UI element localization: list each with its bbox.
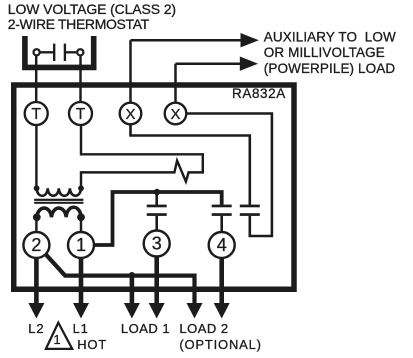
transformer secondary coil <box>37 207 81 217</box>
svg-text:AUXILIARY TO LOW: AUXILIARY TO LOW <box>264 30 396 45</box>
svg-text:1: 1 <box>76 235 86 255</box>
svg-text:1: 1 <box>53 332 60 347</box>
terminal X2 <box>165 103 187 125</box>
svg-text:2: 2 <box>31 235 41 255</box>
wire terminal 1 to bus and capacitor C2 <box>94 192 222 245</box>
arrowhead LOAD1 right <box>149 303 165 319</box>
capacitor C3 <box>240 205 260 216</box>
svg-text:LOAD 2: LOAD 2 <box>179 321 228 336</box>
svg-text:(POWERPILE) LOAD: (POWERPILE) LOAD <box>264 61 396 76</box>
terminal 1 <box>68 232 94 258</box>
wire secondary right to terminal 1 <box>80 217 82 233</box>
arrowhead L2 <box>28 303 44 319</box>
wire terminal 3 to LOAD1 right arrow <box>154 257 159 305</box>
transformer primary coil <box>37 188 81 196</box>
wire X2 right and down to capacitor C3 bottom <box>186 114 272 237</box>
svg-text:L1: L1 <box>73 321 89 336</box>
wire terminal 2 diagonal to load bus <box>46 254 195 304</box>
transformer primary junction dot left <box>34 185 40 191</box>
warning triangle 1 <box>46 323 72 349</box>
svg-text:T: T <box>76 106 86 123</box>
transformer secondary junction dot left <box>33 213 41 221</box>
arrowhead LOAD2 right <box>214 303 230 319</box>
svg-text:LOAD 1: LOAD 1 <box>121 321 170 336</box>
arrowhead L1 <box>73 303 89 319</box>
svg-text:X: X <box>125 106 135 123</box>
wire C1 down to terminal 3 <box>155 216 158 232</box>
wire T1 down to transformer primary <box>35 125 37 188</box>
wire C2 down to terminal 4 <box>220 216 223 233</box>
svg-text:RA832A: RA832A <box>232 86 286 101</box>
thermostat contact switch <box>39 44 78 61</box>
relay box RA832A <box>14 85 294 289</box>
transformer primary junction dot right <box>78 185 84 191</box>
svg-text:T: T <box>31 106 41 123</box>
capacitor C2 <box>212 205 232 216</box>
wire terminal 2 to L2 arrow <box>34 258 39 304</box>
wire terminal 4 to LOAD2 right arrow <box>219 258 224 304</box>
junction node on bus <box>154 189 160 195</box>
wire T2 down through relay coil to transformer primary <box>81 125 203 188</box>
terminal T2 <box>69 102 92 125</box>
wire thermostat left to T1 <box>35 55 37 103</box>
wire terminal 1 to L1 arrow <box>79 258 84 304</box>
arrowhead LOAD1 left <box>124 303 140 319</box>
transformer core <box>34 199 83 204</box>
svg-text:HOT: HOT <box>77 337 107 352</box>
thermostat terminal left <box>34 49 40 55</box>
capacitor C1 <box>147 205 167 216</box>
svg-text:3: 3 <box>152 234 162 254</box>
svg-text:LOW VOLTAGE (CLASS 2): LOW VOLTAGE (CLASS 2) <box>8 1 176 17</box>
svg-text:OR MILLIVOLTAGE: OR MILLIVOLTAGE <box>264 45 385 60</box>
transformer secondary junction dot right <box>77 213 85 221</box>
wire bus down to capacitor C1 <box>155 192 158 205</box>
wire X1 up to upper arrow <box>129 40 132 103</box>
svg-text:(OPTIONAL): (OPTIONAL) <box>179 337 261 352</box>
wire X2 up to lower arrow <box>174 64 177 103</box>
wire thermostat right to T2 <box>79 55 81 103</box>
thermostat bracket <box>25 36 94 67</box>
wire junction to LOAD1 left arrow <box>130 275 135 304</box>
terminal 4 <box>209 232 235 258</box>
svg-text:2-WIRE THERMOSTAT: 2-WIRE THERMOSTAT <box>8 16 150 32</box>
arrow to auxiliary load lower <box>176 57 259 71</box>
terminal 3 <box>144 231 170 257</box>
thermostat terminal right <box>77 49 83 55</box>
arrowhead LOAD2 left <box>187 303 203 319</box>
terminal T1 <box>25 102 48 125</box>
terminal X1 <box>120 103 142 125</box>
svg-text:X: X <box>170 106 180 123</box>
wire secondary left to terminal 2 <box>35 217 37 233</box>
junction node on load bus <box>129 272 136 279</box>
wire X1 down and right to capacitor C3 top <box>131 124 250 204</box>
svg-text:4: 4 <box>217 235 227 255</box>
terminal 2 <box>23 232 49 258</box>
svg-text:L2: L2 <box>28 321 44 336</box>
arrow to auxiliary load upper <box>131 33 259 47</box>
